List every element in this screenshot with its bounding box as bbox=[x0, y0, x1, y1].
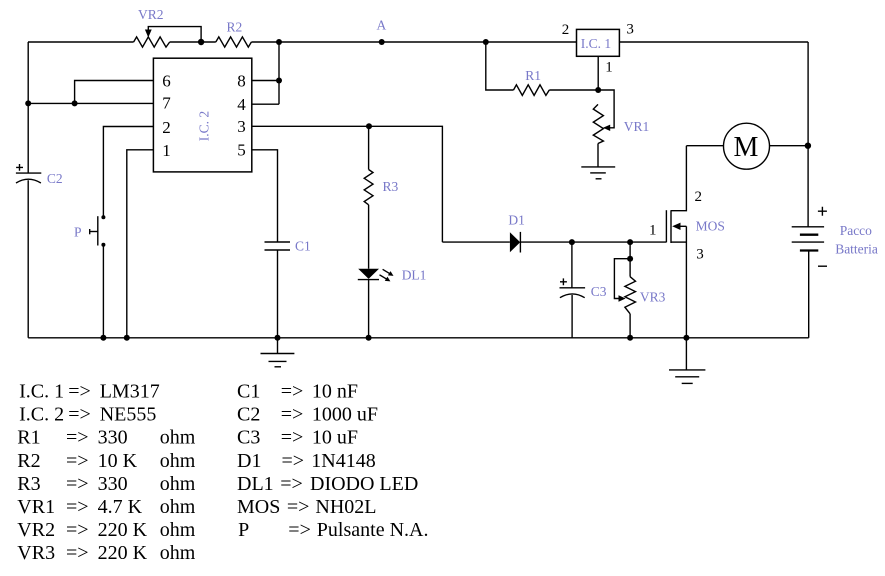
resistor R2 bbox=[216, 37, 252, 47]
svg-text:=>: => bbox=[287, 496, 310, 518]
svg-text:R1: R1 bbox=[525, 68, 541, 83]
svg-text:ohm: ohm bbox=[160, 450, 196, 472]
svg-text:I.C. 1: I.C. 1 bbox=[581, 36, 611, 51]
svg-text:ohm: ohm bbox=[160, 427, 196, 449]
svg-text:1: 1 bbox=[162, 141, 171, 160]
svg-text:VR1: VR1 bbox=[17, 496, 55, 518]
wire left rail upper bbox=[27, 42, 29, 173]
LED DL1 bbox=[368, 205, 370, 269]
ground below C1 bbox=[277, 338, 279, 354]
svg-text:NE555: NE555 bbox=[100, 404, 157, 426]
svg-text:D1: D1 bbox=[237, 450, 261, 472]
svg-text:=>: => bbox=[282, 450, 305, 472]
op-amp I.C. 1 box bbox=[577, 29, 620, 56]
svg-text:MOS: MOS bbox=[696, 218, 725, 233]
svg-text:220 K: 220 K bbox=[98, 519, 148, 541]
ground below VR1 bbox=[597, 144, 599, 167]
svg-text:M: M bbox=[734, 132, 759, 163]
svg-text:C3: C3 bbox=[591, 284, 607, 299]
svg-text:Pacco: Pacco bbox=[840, 223, 872, 238]
svg-text:D1: D1 bbox=[508, 213, 525, 228]
svg-text:10 nF: 10 nF bbox=[312, 381, 358, 403]
svg-text:=>: => bbox=[281, 381, 304, 403]
svg-text:=>: => bbox=[281, 427, 304, 449]
svg-text:6: 6 bbox=[162, 71, 171, 90]
svg-text:NH02L: NH02L bbox=[315, 496, 376, 518]
svg-text:DL1: DL1 bbox=[237, 473, 274, 495]
svg-text:I.C. 2: I.C. 2 bbox=[19, 404, 64, 426]
svg-text:2: 2 bbox=[695, 189, 703, 205]
svg-text:8: 8 bbox=[237, 71, 246, 90]
svg-text:R3: R3 bbox=[383, 179, 399, 194]
svg-text:VR3: VR3 bbox=[640, 289, 666, 304]
potentiometer VR3 bbox=[629, 242, 631, 277]
junction dot pin8 column on rail bbox=[276, 39, 282, 45]
svg-text:C3: C3 bbox=[237, 427, 260, 449]
battery Pacco Batteria bbox=[792, 226, 824, 228]
VR2 wiper arrow and loop bbox=[148, 27, 201, 42]
svg-text:=>: => bbox=[280, 473, 303, 495]
svg-text:4: 4 bbox=[237, 95, 246, 114]
svg-text:=>: => bbox=[288, 519, 311, 541]
wire pin6 to pin7 junction bbox=[75, 81, 154, 104]
svg-text:VR3: VR3 bbox=[17, 542, 55, 564]
wire R1 branch vertical bbox=[486, 42, 514, 90]
svg-text:DL1: DL1 bbox=[402, 268, 427, 283]
motor M bbox=[686, 145, 723, 147]
wire pin5 to C1 bbox=[252, 150, 278, 242]
svg-text:=>: => bbox=[66, 427, 89, 449]
svg-text:1: 1 bbox=[649, 223, 657, 239]
svg-text:MOS: MOS bbox=[237, 496, 280, 518]
wire top rail left segment bbox=[28, 41, 134, 43]
C3 plus sign bbox=[560, 278, 567, 285]
svg-text:3: 3 bbox=[626, 22, 634, 38]
battery minus sign bbox=[818, 265, 827, 267]
op-amp I.C. 2 box bbox=[153, 58, 251, 172]
C2 plus sign bbox=[16, 164, 23, 171]
svg-text:=>: => bbox=[66, 496, 89, 518]
svg-text:VR2: VR2 bbox=[138, 7, 164, 22]
svg-text:3: 3 bbox=[237, 117, 246, 136]
wire top rail between VR2 and R2 bbox=[170, 41, 216, 43]
svg-text:P: P bbox=[238, 519, 249, 541]
wire bottom rail bbox=[28, 337, 809, 339]
svg-text:Batteria: Batteria bbox=[835, 241, 878, 256]
svg-text:=>: => bbox=[281, 404, 304, 426]
svg-text:LM317: LM317 bbox=[100, 381, 160, 403]
wire right rail down to battery bbox=[807, 42, 809, 227]
svg-text:7: 7 bbox=[162, 94, 171, 113]
transistor MOS bbox=[665, 210, 667, 242]
resistor VR2 bbox=[134, 37, 170, 47]
svg-text:R2: R2 bbox=[17, 450, 40, 472]
svg-text:3: 3 bbox=[696, 246, 704, 262]
svg-text:I.C. 1: I.C. 1 bbox=[19, 381, 64, 403]
svg-text:C1: C1 bbox=[295, 239, 311, 254]
svg-text:330: 330 bbox=[98, 427, 128, 449]
ground below MOS bbox=[685, 338, 687, 370]
wire pin7 to left rail bbox=[28, 102, 153, 104]
wire IC1 pin1 stem bbox=[597, 56, 599, 90]
svg-text:R3: R3 bbox=[17, 473, 40, 495]
svg-text:=>: => bbox=[66, 473, 89, 495]
svg-text:1000 uF: 1000 uF bbox=[312, 404, 378, 426]
svg-text:A: A bbox=[377, 18, 387, 33]
svg-text:1N4148: 1N4148 bbox=[311, 450, 375, 472]
svg-text:4.7 K: 4.7 K bbox=[98, 496, 143, 518]
wire pin1 to bottom rail bbox=[127, 150, 154, 338]
svg-text:1: 1 bbox=[605, 60, 613, 76]
junction dot R1 branch on rail bbox=[483, 39, 489, 45]
resistor R3 bbox=[368, 126, 370, 169]
resistor R1 bbox=[514, 85, 550, 96]
svg-text:ohm: ohm bbox=[160, 519, 196, 541]
svg-text:R2: R2 bbox=[227, 20, 243, 35]
wire pin3 output bbox=[252, 126, 443, 242]
battery plus sign bbox=[818, 207, 827, 216]
svg-text:220 K: 220 K bbox=[98, 542, 148, 564]
svg-text:R1: R1 bbox=[17, 427, 40, 449]
wire pin8 to junction column bbox=[252, 80, 279, 82]
svg-text:ohm: ohm bbox=[160, 473, 196, 495]
potentiometer VR1 bbox=[593, 104, 603, 143]
svg-text:=>: => bbox=[68, 381, 91, 403]
svg-text:P: P bbox=[74, 225, 82, 240]
svg-text:=>: => bbox=[66, 450, 89, 472]
diode D1 bbox=[442, 241, 510, 243]
wire pin4 to junction column bbox=[252, 103, 279, 105]
svg-text:=>: => bbox=[66, 542, 89, 564]
svg-text:DIODO LED: DIODO LED bbox=[310, 473, 418, 495]
wire top rail R2 to IC1 bbox=[251, 41, 576, 43]
svg-text:C2: C2 bbox=[237, 404, 260, 426]
svg-text:ohm: ohm bbox=[160, 496, 196, 518]
svg-text:C1: C1 bbox=[237, 381, 260, 403]
capacitor C2 bbox=[16, 172, 41, 174]
svg-text:VR2: VR2 bbox=[17, 519, 55, 541]
svg-text:330: 330 bbox=[98, 473, 128, 495]
wire top rail IC1 to right corner bbox=[619, 41, 808, 43]
DL1 emission arrows bbox=[383, 269, 391, 274]
svg-text:ohm: ohm bbox=[160, 542, 196, 564]
pushbutton P bbox=[101, 215, 105, 219]
svg-text:Pulsante N.A.: Pulsante N.A. bbox=[317, 519, 429, 541]
svg-text:10 uF: 10 uF bbox=[312, 427, 358, 449]
wire battery bottom stem bbox=[808, 251, 810, 338]
svg-text:=>: => bbox=[66, 519, 89, 541]
svg-text:2: 2 bbox=[562, 22, 570, 38]
svg-text:=>: => bbox=[68, 404, 91, 426]
wire pin2 to button bbox=[103, 127, 153, 218]
svg-text:C2: C2 bbox=[47, 171, 63, 186]
capacitor C1 bbox=[265, 241, 291, 243]
svg-text:5: 5 bbox=[237, 141, 246, 160]
junction dot VR2 wiper on rail bbox=[198, 39, 204, 45]
svg-text:I.C. 2: I.C. 2 bbox=[197, 111, 212, 141]
capacitor C3 bbox=[571, 242, 573, 288]
svg-text:10 K: 10 K bbox=[98, 450, 138, 472]
svg-text:VR1: VR1 bbox=[624, 119, 650, 134]
svg-text:2: 2 bbox=[162, 118, 171, 137]
wire junction column vertical bbox=[278, 42, 280, 104]
